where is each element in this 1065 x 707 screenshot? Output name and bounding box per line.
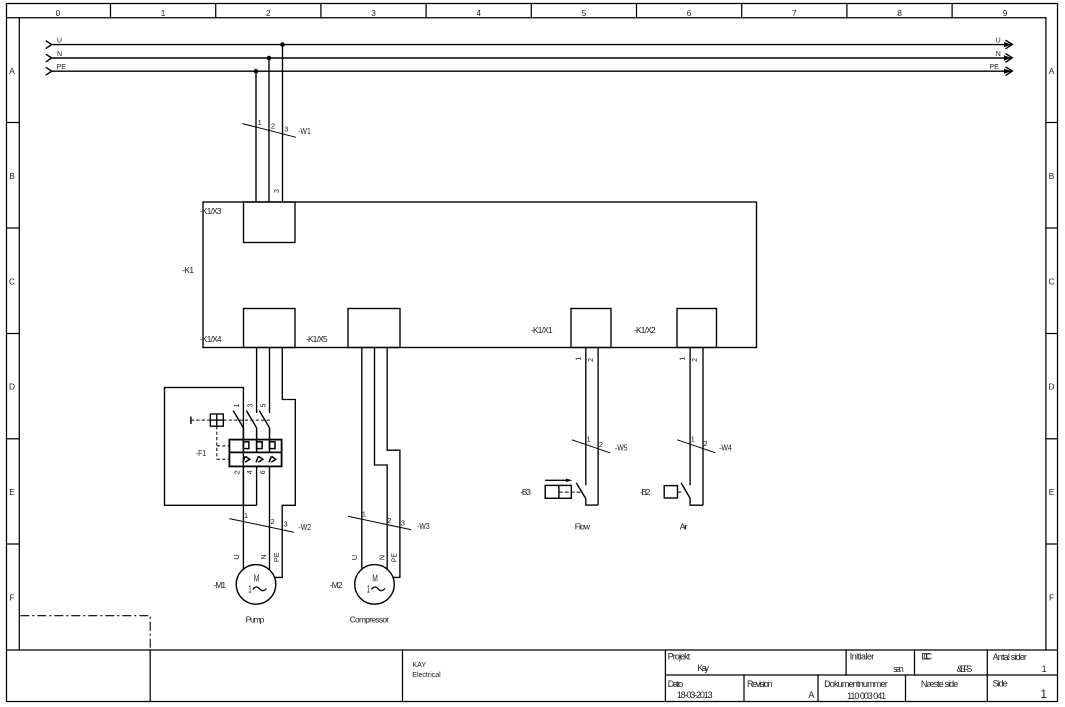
svg-text:E: E [1049,487,1055,497]
svg-text:A: A [808,690,814,700]
svg-text:-W4: -W4 [719,442,732,452]
svg-text:2: 2 [599,440,603,449]
svg-text:Pump: Pump [246,614,265,624]
svg-text:1: 1 [1042,664,1047,674]
svg-text:U: U [232,554,241,559]
svg-text:2: 2 [266,8,271,18]
svg-text:3: 3 [246,404,255,408]
svg-text:E: E [9,487,15,497]
svg-text:1: 1 [573,357,582,361]
svg-text:PE: PE [990,64,1000,71]
svg-text:1: 1 [362,509,366,518]
svg-text:Projekt: Projekt [668,652,691,662]
svg-text:M: M [254,573,260,585]
svg-text:2: 2 [690,358,699,362]
svg-text:Revision: Revision [747,679,773,689]
svg-text:C: C [9,277,15,287]
svg-text:1: 1 [367,583,370,595]
svg-text:D: D [1049,382,1055,392]
svg-text:3: 3 [283,520,287,529]
svg-text:PE: PE [272,552,281,562]
svg-text:-K1/X2: -K1/X2 [634,325,656,335]
svg-text:2: 2 [270,517,274,526]
svg-text:U: U [350,555,359,560]
svg-text:Flow: Flow [575,522,591,532]
svg-text:B: B [1049,171,1055,181]
svg-text:-K1/X4: -K1/X4 [200,334,222,344]
svg-text:1: 1 [1041,689,1047,701]
svg-text:8: 8 [897,8,902,18]
svg-text:-K1/X3: -K1/X3 [200,206,222,216]
svg-text:U: U [996,37,1001,44]
svg-text:1: 1 [161,8,166,18]
svg-text:1: 1 [258,118,262,127]
svg-text:-K1/X5: -K1/X5 [306,334,328,344]
svg-text:3: 3 [284,125,288,134]
svg-text:2: 2 [586,358,595,362]
svg-text:5: 5 [259,404,268,408]
svg-text:1: 1 [244,511,248,520]
svg-text:110 003 041: 110 003 041 [847,691,886,701]
svg-text:-B3: -B3 [520,487,531,497]
svg-text:C: C [1049,277,1055,287]
svg-text:DCC: DCC [921,652,932,662]
svg-text:PE: PE [57,64,67,71]
svg-text:18-03-2013: 18-03-2013 [677,690,713,700]
svg-text:F: F [1049,593,1054,603]
svg-text:Side: Side [993,679,1008,689]
svg-text:-W2: -W2 [298,522,311,532]
svg-text:3: 3 [401,519,405,528]
svg-text:-M1: -M1 [213,580,226,590]
svg-text:N: N [996,51,1001,58]
svg-text:Næste side: Næste side [921,679,958,689]
svg-text:Initialer: Initialer [850,652,875,662]
svg-text:Dokumentnummer: Dokumentnummer [824,679,888,689]
svg-text:1: 1 [248,583,251,595]
svg-text:M: M [372,573,378,585]
svg-text:4: 4 [476,8,481,18]
svg-text:6: 6 [687,8,692,18]
svg-text:7: 7 [792,8,797,18]
svg-text:KAY: KAY [412,660,426,669]
svg-text:3: 3 [371,8,376,18]
svg-text:-W1: -W1 [298,126,311,136]
svg-text:-M2: -M2 [330,580,343,590]
svg-text:2: 2 [271,121,275,130]
svg-text:-K1: -K1 [182,265,194,275]
svg-text:-W5: -W5 [615,442,628,452]
svg-text:3: 3 [272,189,281,193]
svg-text:A: A [9,66,15,76]
svg-text:6: 6 [258,470,267,474]
svg-text:1: 1 [586,435,590,444]
svg-text:-F1: -F1 [196,448,207,458]
svg-text:1: 1 [691,435,695,444]
svg-text:PE: PE [389,553,398,563]
svg-text:san: san [893,664,904,674]
svg-text:Electrical: Electrical [412,670,441,679]
svg-text:9: 9 [1003,8,1008,18]
svg-text:Kay: Kay [697,663,709,673]
svg-text:B: B [9,171,15,181]
svg-text:0: 0 [56,8,61,18]
svg-text:F: F [9,593,14,603]
svg-text:Antal sider: Antal sider [993,652,1027,662]
svg-text:1: 1 [678,357,687,361]
svg-text:A: A [1049,66,1055,76]
svg-text:D: D [9,382,15,392]
svg-text:N: N [377,555,386,560]
svg-text:N: N [57,51,62,58]
svg-text:4: 4 [245,470,254,474]
svg-text:&EFS: &EFS [957,664,973,674]
svg-text:5: 5 [582,8,587,18]
svg-text:-B2: -B2 [640,487,651,497]
svg-text:2: 2 [387,516,391,525]
svg-text:2: 2 [703,439,707,448]
svg-text:1: 1 [232,404,241,408]
svg-text:Air: Air [680,522,688,532]
svg-text:Dato: Dato [668,679,683,689]
svg-text:N: N [259,554,268,559]
svg-text:U: U [57,37,62,44]
svg-text:-W3: -W3 [417,521,430,531]
svg-text:-K1/X1: -K1/X1 [531,325,553,335]
svg-text:Compressor: Compressor [350,614,390,624]
svg-text:2: 2 [232,470,241,474]
